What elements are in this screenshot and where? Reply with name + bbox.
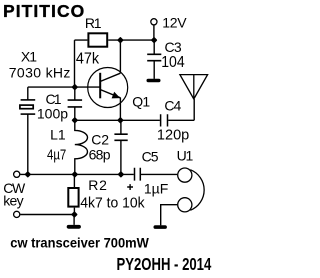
svg-text:L1: L1	[50, 126, 66, 142]
svg-text:120p: 120p	[157, 127, 189, 143]
svg-text:X1: X1	[21, 48, 37, 64]
svg-text:PY2OHH - 2014: PY2OHH - 2014	[117, 255, 212, 274]
svg-text:C2: C2	[91, 132, 109, 148]
svg-text:104: 104	[161, 53, 184, 71]
svg-text:4k7 to 10k: 4k7 to 10k	[80, 195, 145, 212]
svg-text:68p: 68p	[89, 146, 111, 162]
svg-text:U1: U1	[177, 147, 194, 163]
svg-text:cw transceiver 700mW: cw transceiver 700mW	[10, 235, 149, 250]
svg-text:100p: 100p	[37, 105, 68, 121]
svg-text:PITITICO: PITITICO	[3, 1, 85, 21]
svg-text:C5: C5	[142, 149, 159, 165]
svg-text:7030 kHz: 7030 kHz	[9, 65, 71, 81]
svg-text:C4: C4	[164, 98, 181, 114]
svg-text:1µF: 1µF	[144, 180, 168, 196]
svg-text:key: key	[3, 192, 23, 208]
svg-text:R2: R2	[88, 177, 108, 193]
svg-text:Q1: Q1	[132, 93, 150, 109]
svg-text:47k: 47k	[76, 50, 100, 68]
svg-text:4µ7: 4µ7	[47, 146, 66, 163]
svg-text:R1: R1	[85, 15, 102, 31]
svg-text:12V: 12V	[162, 15, 187, 31]
